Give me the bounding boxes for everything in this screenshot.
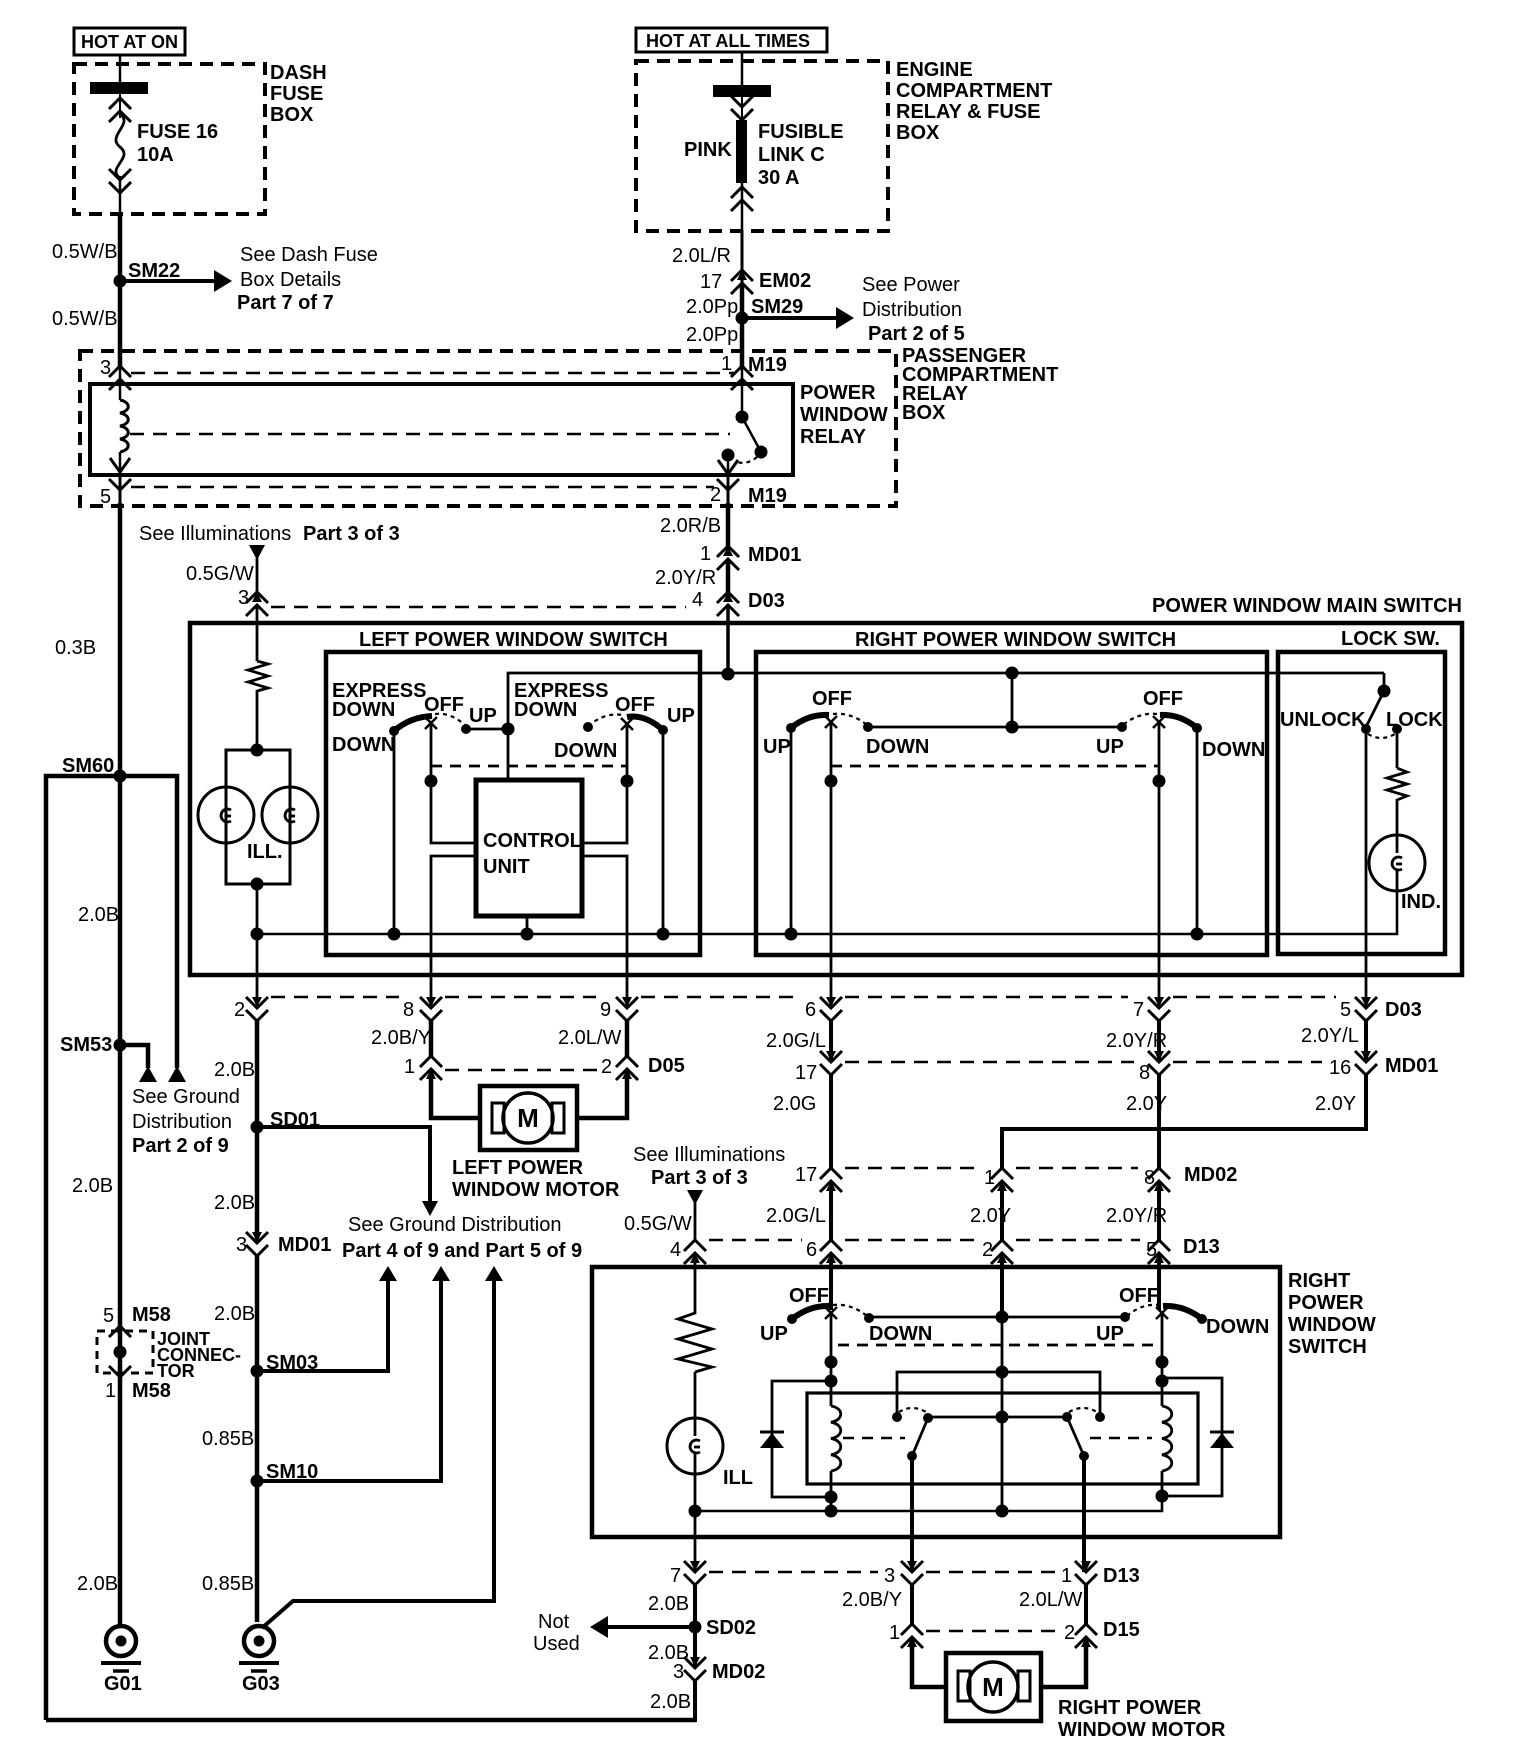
label ENGINE COMPARTMENT RELAY & FUSE BOX: [896, 59, 1052, 144]
wire relay contact top link: [897, 1372, 1100, 1417]
mechanical link dashed SW1-SW2: [431, 765, 627, 768]
connector dashed line MD01 right row: [845, 1061, 1322, 1064]
internal ground bus: [257, 890, 1397, 934]
terminal triangle from SM03: [379, 1266, 397, 1281]
switch SW6 pivot X: [1156, 1307, 1168, 1319]
wire pin 3 to D15 pin 1: [910, 1585, 914, 1624]
pin 1 D05: [404, 1056, 442, 1080]
relay coil: [120, 400, 128, 452]
wire pin 8 to D05 pin 1: [429, 1021, 434, 1056]
svg-text:7: 7: [1133, 999, 1144, 1021]
terminal triangle to ground distribution left: [139, 1066, 157, 1082]
svg-text:RIGHT POWER: RIGHT POWER: [1058, 1697, 1202, 1719]
terminal triangle to ground distribution right: [168, 1066, 186, 1082]
svg-text:LINK C: LINK C: [758, 144, 825, 166]
svg-text:OFF: OFF: [424, 694, 464, 716]
svg-text:See Power: See Power: [862, 274, 960, 296]
node D03 feed junction: [722, 668, 735, 681]
svg-text:D05: D05: [648, 1055, 685, 1077]
wire 2.0Y MD01 to MD02: [1157, 1075, 1161, 1168]
wire RC2 output to pin 1: [1082, 1456, 1086, 1572]
relay contact RC2 dashed throw: [1069, 1408, 1097, 1412]
svg-text:16: 16: [1329, 1057, 1351, 1079]
svg-text:WINDOW MOTOR: WINDOW MOTOR: [1058, 1719, 1226, 1741]
svg-text:UNLOCK: UNLOCK: [1280, 709, 1366, 731]
svg-text:Part 2 of 9: Part 2 of 9: [132, 1135, 229, 1157]
switch SW5 dashed throw to down: [833, 1305, 874, 1323]
switch SW4 labels OFF UP DOWN: [1096, 688, 1265, 761]
svg-text:RELAY & FUSE: RELAY & FUSE: [896, 101, 1040, 123]
svg-text:DOWN: DOWN: [514, 699, 577, 721]
relay linkage dashed K2: [1090, 1437, 1152, 1440]
svg-text:UP: UP: [469, 705, 497, 727]
wire 2.0B MD01 to SM03: [255, 1256, 260, 1371]
svg-text:POWER WINDOW MAIN SWITCH: POWER WINDOW MAIN SWITCH: [1152, 595, 1462, 617]
svg-text:0.5G/W: 0.5G/W: [624, 1213, 692, 1235]
wire coil K1 to bus: [830, 1471, 833, 1511]
svg-text:2.0R/B: 2.0R/B: [660, 515, 721, 537]
switch SW1 dashed throw to UP: [435, 714, 471, 734]
note see ground distribution part 4 and 5 of 9: [342, 1214, 582, 1262]
door ground bus: [695, 1496, 1162, 1511]
node SW5 diode tap: [825, 1375, 838, 1388]
switch SW1 pivot X: [425, 717, 437, 729]
label JOINT CONNECTOR: [157, 1329, 241, 1381]
relay switch dashed throw: [736, 457, 757, 463]
svg-text:0.85B: 0.85B: [202, 1573, 254, 1595]
svg-text:RIGHT: RIGHT: [1288, 1270, 1350, 1292]
node SM22: [114, 260, 181, 288]
control unit box: [476, 780, 582, 916]
svg-text:OFF: OFF: [1119, 1285, 1159, 1307]
joint connector M58 pin 1: [105, 1366, 171, 1402]
svg-text:FUSE: FUSE: [270, 83, 323, 105]
svg-text:1: 1: [721, 353, 732, 375]
node SM29: [736, 296, 804, 325]
wire common to SW4 up contact: [1012, 726, 1122, 729]
wire 2.0L/R to EM02: [741, 230, 744, 284]
ILL lamp frame: [226, 750, 290, 884]
svg-text:Not: Not: [538, 1611, 570, 1633]
svg-text:COMPARTMENT: COMPARTMENT: [896, 80, 1052, 102]
node SM53: [60, 1034, 127, 1056]
svg-text:UP: UP: [667, 705, 695, 727]
switch SW6 arm (down position): [1163, 1306, 1207, 1324]
svg-text:DOWN: DOWN: [1202, 739, 1265, 761]
wire SW2 pivot to control unit: [582, 725, 627, 843]
svg-text:UP: UP: [760, 1323, 788, 1345]
svg-text:DOWN: DOWN: [869, 1323, 932, 1345]
svg-text:UP: UP: [1096, 736, 1124, 758]
svg-text:EM02: EM02: [759, 270, 811, 292]
svg-text:LOCK SW.: LOCK SW.: [1341, 628, 1440, 650]
node center at bus: [996, 1505, 1009, 1518]
pin 2 arrow from contact: [718, 455, 738, 474]
label RIGHT POWER WINDOW MOTOR: [1058, 1697, 1226, 1741]
svg-text:See Ground: See Ground: [132, 1086, 240, 1108]
switch SW1 arm (express down position): [389, 716, 432, 736]
wire SM60 branch right to ground distribution: [120, 776, 177, 1068]
diode D1 branch: [772, 1381, 831, 1497]
wire 2.0Pp EM02 to SM29: [740, 284, 745, 318]
wire 0.85B SM10 to G03: [255, 1481, 260, 1622]
svg-text:6: 6: [806, 1239, 817, 1261]
connector 1 MD02: [984, 1167, 1013, 1192]
svg-text:2.0Y/L: 2.0Y/L: [1301, 1025, 1359, 1047]
wire bottom rail to 3 MD02: [46, 1718, 696, 1723]
wire pin 9 to D05 pin 2: [625, 1021, 630, 1056]
svg-text:2.0Y: 2.0Y: [970, 1205, 1011, 1227]
svg-text:BOX: BOX: [902, 402, 946, 424]
lock switch box: [1278, 652, 1445, 954]
node SW6 diode tap: [1156, 1375, 1169, 1388]
relay contact RC2 common: [1062, 1412, 1072, 1422]
svg-text:2.0Pp: 2.0Pp: [686, 296, 738, 318]
svg-text:2.0Y/R: 2.0Y/R: [655, 567, 716, 589]
label POWER WINDOW RELAY: [800, 382, 888, 448]
svg-text:PINK: PINK: [684, 139, 732, 161]
svg-text:LEFT POWER: LEFT POWER: [452, 1157, 584, 1179]
wire 2.0B SM53 to G01: [118, 1045, 123, 1627]
svg-text:DOWN: DOWN: [332, 734, 395, 756]
wire 0.3B relay pin 5 down to SM60: [118, 503, 123, 776]
svg-text:D13: D13: [1103, 1565, 1140, 1587]
diode D1: [760, 1432, 784, 1448]
svg-text:17: 17: [795, 1164, 817, 1186]
wire SW4 down contact to bus: [1196, 728, 1199, 934]
svg-text:5: 5: [1340, 999, 1351, 1021]
svg-text:0.5W/B: 0.5W/B: [52, 241, 118, 263]
lamp ILL left: [198, 787, 254, 843]
svg-text:OFF: OFF: [812, 688, 852, 710]
node SW1 pivot dot: [425, 775, 438, 788]
connector 1 MD01: [700, 543, 801, 570]
svg-text:Distribution: Distribution: [132, 1111, 232, 1133]
switch SW3 arm (up position): [786, 715, 829, 733]
svg-text:0.85B: 0.85B: [202, 1428, 254, 1450]
connector 5 D13: [1146, 1236, 1220, 1264]
connector chevrons at fusible link output: [731, 183, 753, 231]
wire pin 2 D13 into right switch box: [1000, 1253, 1004, 1316]
switch SW4 arm (down position): [1160, 715, 1202, 733]
wire ILL to internal bus: [256, 884, 259, 934]
node SW5 pivot dot upper: [825, 1356, 838, 1369]
pin 2 M19 chevron: [710, 474, 787, 507]
motor left power window: [480, 1086, 577, 1150]
wire feed to right switch and lock switch: [728, 672, 1384, 675]
wire 0.85B SM03 to SM10: [255, 1371, 260, 1481]
pin 3 D13: [884, 1561, 923, 1587]
svg-text:Part 7 of 7: Part 7 of 7: [237, 292, 334, 314]
svg-text:2.0B: 2.0B: [214, 1192, 255, 1214]
pin 1 D15: [889, 1622, 923, 1648]
bus bar in dash fuse box: [90, 82, 148, 94]
svg-text:2: 2: [234, 999, 245, 1021]
note see power distribution: [862, 274, 965, 345]
svg-text:2.0B: 2.0B: [214, 1059, 255, 1081]
wire 2.0Y/R MD02 to D13: [1157, 1181, 1161, 1240]
passenger compartment relay box (dashed): [80, 351, 896, 506]
relay linkage dashed K1: [843, 1437, 905, 1440]
svg-text:SM22: SM22: [128, 260, 180, 282]
connector dashed line M19 bottom: [131, 486, 714, 489]
right power window switch box (door): [592, 1267, 1280, 1537]
connector 17 MD02: [795, 1164, 842, 1192]
joint connector node: [114, 1346, 127, 1359]
wire from HOT AT ON into fuse box: [119, 55, 122, 84]
svg-text:WINDOW: WINDOW: [800, 404, 888, 426]
connector 8 MD01: [1139, 1051, 1170, 1084]
svg-text:2: 2: [1064, 1622, 1075, 1644]
wire 0.5G/W illumination feed: [256, 558, 259, 600]
wire pin 4 D13 into right switch box: [694, 1253, 697, 1308]
node common at center line: [996, 1311, 1009, 1324]
svg-text:See Ground Distribution: See Ground Distribution: [348, 1214, 561, 1236]
svg-text:POWER: POWER: [800, 382, 876, 404]
svg-text:Distribution: Distribution: [862, 299, 962, 321]
node feed junction at center: [1006, 667, 1019, 680]
svg-text:ILL.: ILL.: [247, 841, 283, 863]
node coil K1 diode return: [825, 1491, 838, 1504]
pin 5 D03: [1340, 997, 1422, 1021]
svg-text:SM29: SM29: [751, 296, 803, 318]
svg-text:BOX: BOX: [896, 122, 940, 144]
node bus at SW2 up: [657, 928, 670, 941]
svg-text:DOWN: DOWN: [554, 740, 617, 762]
svg-text:4: 4: [692, 589, 703, 611]
svg-text:MD01: MD01: [278, 1234, 331, 1256]
wire 2.0Y MD02 to D13: [1000, 1181, 1004, 1240]
switch SW3 dashed throw to down: [833, 714, 873, 732]
connector chevrons at fuse output: [109, 169, 131, 214]
svg-text:2.0L/W: 2.0L/W: [1019, 1589, 1082, 1611]
relay linkage dashed line: [130, 433, 730, 436]
wire lock contact to resistor: [1396, 729, 1399, 768]
node SM03: [251, 1352, 319, 1378]
pin 1 D13 right: [1061, 1561, 1140, 1587]
switch SW1 labels EXPRESS DOWN OFF UP DOWN: [332, 680, 497, 756]
wire 2.0Y/L pin 5 to MD01: [1364, 1021, 1368, 1062]
switch SW3 pivot X: [825, 716, 837, 728]
wire ILL lamp to bus: [694, 1474, 697, 1511]
svg-text:Used: Used: [533, 1633, 580, 1655]
wire 2.0G MD01 to MD02: [829, 1075, 833, 1168]
svg-text:2.0Y: 2.0Y: [1315, 1093, 1356, 1115]
diode D2: [1210, 1432, 1234, 1448]
svg-text:2.0G/L: 2.0G/L: [766, 1030, 826, 1052]
svg-text:Part 3 of 3: Part 3 of 3: [651, 1167, 748, 1189]
mechanical link dashed SW5-SW6: [838, 1344, 1155, 1347]
connector 8 MD02: [1144, 1164, 1237, 1192]
label CONTROL UNIT: [483, 830, 582, 878]
wire D15 pin 2 to right motor: [1041, 1637, 1086, 1687]
svg-text:OFF: OFF: [1143, 688, 1183, 710]
wire SM03 branch to ground distribution: [257, 1279, 388, 1371]
node SD02: [689, 1617, 757, 1639]
svg-text:1: 1: [404, 1056, 415, 1078]
svg-text:1: 1: [1061, 1565, 1072, 1587]
svg-text:0.5G/W: 0.5G/W: [186, 563, 254, 585]
bus bar in engine box: [713, 85, 771, 97]
wire D15 pin 1 to right motor: [912, 1637, 946, 1687]
switch SW5 arm (up position): [787, 1306, 831, 1324]
connector 2 D13: [982, 1239, 1013, 1264]
lamp ILL right door: [667, 1418, 723, 1474]
svg-text:LEFT POWER WINDOW SWITCH: LEFT POWER WINDOW SWITCH: [359, 629, 668, 651]
connector dashed line D05 row: [445, 1069, 597, 1072]
node bus at control unit: [521, 928, 534, 941]
wire resistor to IND lamp: [1396, 799, 1399, 836]
switch SW2 arm (up position): [627, 717, 668, 735]
svg-text:G03: G03: [242, 1673, 280, 1695]
svg-text:8: 8: [403, 999, 414, 1021]
connector 4 D03: [692, 589, 785, 616]
terminal triangle from illuminations lower: [687, 1190, 703, 1205]
connector dashed line D13 bottom row: [709, 1571, 1056, 1574]
connector chevrons below bus bar: [731, 96, 753, 120]
wire SW5 down contact to common: [869, 1316, 1002, 1319]
svg-text:1: 1: [105, 1380, 116, 1402]
svg-text:2: 2: [710, 484, 721, 506]
svg-text:MD02: MD02: [712, 1661, 765, 1683]
svg-text:17: 17: [700, 271, 722, 293]
wire ILL lamp output to pin 2: [256, 934, 259, 1006]
relay fixed contact: [722, 449, 735, 462]
svg-text:M: M: [982, 1672, 1004, 1702]
svg-text:Box Details: Box Details: [240, 269, 341, 291]
relay arm RC2: [1067, 1417, 1089, 1461]
wire 2.0Y/R MD01 to D03: [726, 559, 731, 592]
svg-text:4: 4: [670, 1239, 681, 1261]
svg-text:2.0B/Y: 2.0B/Y: [842, 1589, 902, 1611]
pin 8 D03: [403, 997, 442, 1021]
wire feed into lock switch: [1383, 673, 1386, 691]
wire coil K2 to diode return: [1161, 1471, 1164, 1496]
svg-text:G01: G01: [104, 1673, 142, 1695]
wire G03 feed from ground distribution: [262, 1279, 494, 1628]
pin 6 D03: [805, 997, 842, 1021]
svg-text:D03: D03: [1385, 999, 1422, 1021]
wire pin 1 to D15 pin 2: [1084, 1585, 1088, 1624]
pin 3 M19: [100, 357, 131, 400]
relay contact RC1 dashed throw: [899, 1408, 926, 1412]
svg-text:2.0Y/R: 2.0Y/R: [1106, 1030, 1167, 1052]
wire from HOT AT ALL TIMES into box: [741, 52, 744, 86]
wire SW3 down contact to common: [868, 726, 1012, 729]
wire 2.0B pin 7 to SD02: [693, 1585, 697, 1627]
svg-text:ILL: ILL: [723, 1467, 753, 1489]
switch SW4 pivot X: [1153, 716, 1165, 728]
wire 0.5W/B fuse box to SM22: [118, 212, 123, 281]
wire SW1 pivot to control unit: [431, 725, 476, 843]
label FUSIBLE LINK C 30 A: [758, 121, 844, 189]
node SW6 pivot dot upper: [1156, 1356, 1169, 1369]
wire SW6 pivot to relay coil K2: [1161, 1315, 1164, 1406]
svg-text:M19: M19: [748, 485, 787, 507]
wire arrow not used: [590, 1616, 695, 1638]
wire SM60 branch left and down to bottom rail: [46, 776, 120, 1720]
svg-text:FUSE 16: FUSE 16: [137, 121, 218, 143]
fuse F16 symbol: [116, 114, 124, 178]
svg-text:M: M: [517, 1103, 539, 1133]
svg-text:HOT AT ALL TIMES: HOT AT ALL TIMES: [646, 31, 810, 51]
svg-text:WINDOW MOTOR: WINDOW MOTOR: [452, 1179, 620, 1201]
svg-text:3: 3: [673, 1661, 684, 1683]
pin 7 D03: [1133, 997, 1170, 1021]
pin 5 arrow at coil output: [110, 452, 130, 474]
wire unlock contact to pin 5: [1365, 729, 1368, 1006]
node SW1 common junction: [502, 723, 515, 736]
node door bus at ILL: [689, 1505, 702, 1518]
svg-text:SM60: SM60: [62, 755, 114, 777]
svg-text:DASH: DASH: [270, 62, 327, 84]
fusible link C 30A (PINK): [736, 120, 747, 183]
node bus at SW3 up: [785, 928, 798, 941]
wire D05 pin1 to left motor: [431, 1069, 480, 1118]
wire ILL to pin 7: [694, 1511, 697, 1572]
relay coil K1: [831, 1406, 841, 1471]
svg-text:30 A: 30 A: [758, 167, 800, 189]
svg-text:M58: M58: [132, 1304, 171, 1326]
svg-text:HOT AT ON: HOT AT ON: [81, 32, 178, 52]
mechanical link dashed SW3-SW4: [831, 765, 1159, 768]
node bus at ILL: [251, 928, 264, 941]
diode D2 branch: [1162, 1378, 1222, 1496]
dash fuse box (dashed): [74, 64, 265, 214]
svg-text:9: 9: [600, 999, 611, 1021]
svg-text:2.0L/R: 2.0L/R: [672, 245, 731, 267]
note see illuminations part 3 of 3: [139, 523, 400, 545]
wire D03 into main switch box: [726, 605, 730, 674]
label PASSENGER COMPARTMENT RELAY BOX: [902, 345, 1058, 424]
svg-text:IND.: IND.: [1401, 891, 1441, 913]
wire arrow to dash fuse box details: [120, 270, 232, 292]
svg-text:SD02: SD02: [706, 1617, 756, 1639]
node SW3 pivot dot: [825, 775, 838, 788]
connector dashed line D13 row: [709, 1239, 1140, 1242]
wire 2.0B MD02 to bottom rail: [693, 1681, 697, 1722]
svg-text:RIGHT POWER WINDOW SWITCH: RIGHT POWER WINDOW SWITCH: [855, 629, 1176, 651]
wire 0.5W/B SM22 to relay box pin 3: [118, 281, 123, 366]
relay coil K2: [1162, 1406, 1172, 1471]
node ILL bottom junction: [251, 878, 264, 891]
terminal triangle from G03 feed: [485, 1266, 503, 1281]
node bus at SW1 down: [388, 928, 401, 941]
left power window switch box: [326, 652, 700, 955]
wire D05 pin2 to left motor: [577, 1069, 627, 1118]
note not used: [533, 1611, 580, 1655]
svg-text:2.0Y/R: 2.0Y/R: [1106, 1205, 1167, 1227]
svg-text:RELAY: RELAY: [800, 426, 867, 448]
power window relay box: [90, 384, 793, 475]
svg-text:17: 17: [795, 1062, 817, 1084]
svg-text:UNIT: UNIT: [483, 856, 530, 878]
node SW3 common junction: [1006, 721, 1019, 734]
wire SW4 pivot to pin 7: [1158, 724, 1161, 1006]
relay contact RC1 fixed: [892, 1412, 902, 1422]
wire 2.0Pp SM29 to relay box pin 1: [740, 318, 745, 368]
svg-text:See Illuminations: See Illuminations: [633, 1144, 785, 1166]
svg-text:2.0B: 2.0B: [77, 1573, 118, 1595]
relay switch arm: [742, 417, 768, 459]
terminal triangle from illuminations: [249, 545, 265, 560]
wire arrow to power distribution: [742, 307, 854, 329]
wire feed drop to switch common: [1011, 673, 1014, 726]
relay contact RC2 fixed: [1095, 1412, 1105, 1422]
pin 7 D13: [670, 1561, 706, 1587]
svg-text:MD01: MD01: [1385, 1055, 1438, 1077]
terminal triangle from SM10: [432, 1266, 450, 1281]
